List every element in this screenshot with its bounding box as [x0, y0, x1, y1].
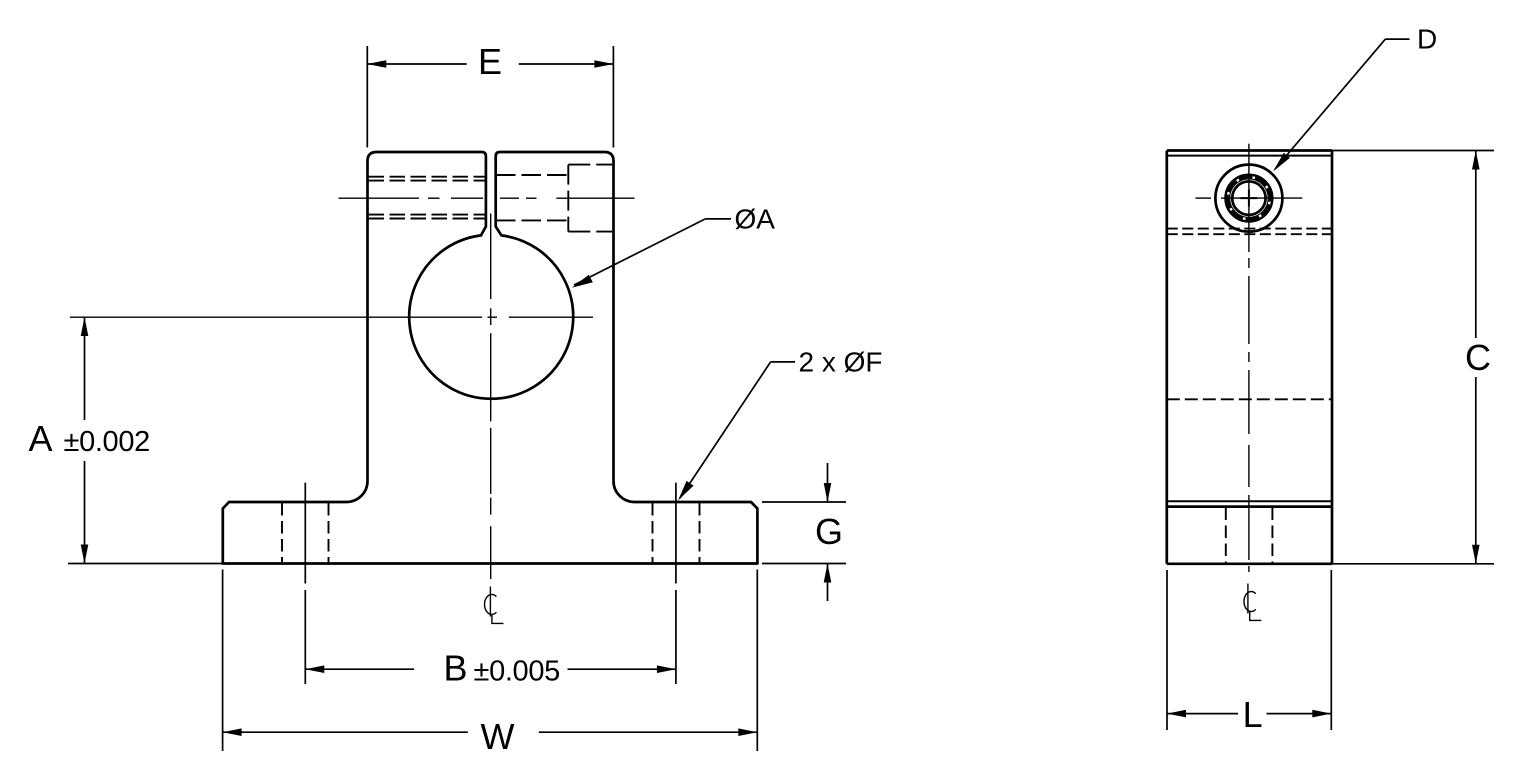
dimension E extension lines — [366, 46, 368, 148]
dimension W extension lines — [222, 570, 224, 752]
side view hidden lines: counterbore bottom and bore top — [1167, 228, 1332, 230]
side view outline — [1167, 149, 1332, 152]
svg-text:E: E — [478, 41, 502, 82]
svg-text:2 x ØF: 2 x ØF — [799, 346, 883, 377]
bore horizontal centerline (extends left as A extension) — [70, 316, 593, 318]
dimension G arrows — [827, 463, 829, 502]
clearance hole hidden lines (right clamp half) — [496, 174, 568, 176]
dimension W line — [223, 731, 468, 733]
svg-text:±0.005: ±0.005 — [474, 656, 560, 688]
screw minor circle — [1232, 181, 1265, 214]
screw horizontal centerline — [1196, 197, 1212, 199]
svg-text:D: D — [1417, 24, 1437, 55]
clamp screw horizontal centerline — [339, 197, 635, 199]
bore vertical centerline — [490, 214, 492, 580]
dimension L line — [1167, 713, 1238, 715]
side view vertical centerline — [1248, 144, 1250, 572]
dimension B extension lines — [304, 483, 306, 584]
svg-text:B: B — [444, 648, 468, 689]
dimension E line — [367, 63, 466, 65]
dimension A bottom extension line — [68, 563, 223, 565]
base mounting holes hidden lines (front view) — [281, 503, 283, 564]
svg-text:C: C — [1465, 337, 1491, 378]
screw head circle — [1226, 175, 1273, 222]
svg-text:ØA: ØA — [735, 204, 776, 235]
svg-text:A: A — [29, 418, 53, 459]
svg-text:G: G — [815, 511, 843, 552]
side view hidden line: bore bottom — [1167, 398, 1332, 400]
tapped clamp-screw hole hidden lines (left clamp half) — [369, 176, 486, 178]
screw thread band — [1228, 177, 1270, 219]
svg-text:L: L — [1243, 694, 1263, 735]
front view body outline with bore and slit — [223, 152, 758, 564]
dimension A line — [84, 317, 86, 420]
leader 2 x OF (mounting holes) — [771, 361, 795, 363]
svg-text:W: W — [481, 716, 515, 757]
dimension C extension lines — [1332, 150, 1494, 152]
dimension G extension lines — [762, 501, 846, 503]
clamp screw top view: counterbore circle — [1215, 165, 1282, 232]
leader OA (bore diameter) — [705, 218, 731, 220]
dimension C line — [1475, 151, 1477, 339]
front view centerline symbol — [485, 587, 504, 624]
dimension B line — [305, 668, 414, 670]
svg-text:±0.002: ±0.002 — [64, 426, 150, 458]
side view base hole hidden lines — [1225, 508, 1227, 564]
side view centerline symbol — [1244, 584, 1261, 621]
leader D (clamp screw) — [1385, 38, 1409, 40]
dimension L extension lines — [1166, 570, 1168, 730]
screw center cross — [1240, 197, 1257, 199]
clamp screw head counterbore hidden box — [568, 164, 612, 166]
